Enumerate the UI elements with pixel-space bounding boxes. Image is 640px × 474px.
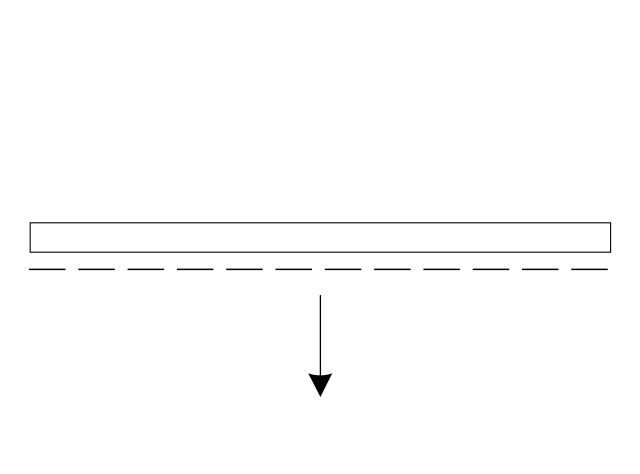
arrow shaft [319, 295, 321, 378]
arrowhead [308, 373, 332, 397]
dashed line [29, 268, 608, 270]
bar (thin horizontal rectangle) [30, 223, 610, 252]
